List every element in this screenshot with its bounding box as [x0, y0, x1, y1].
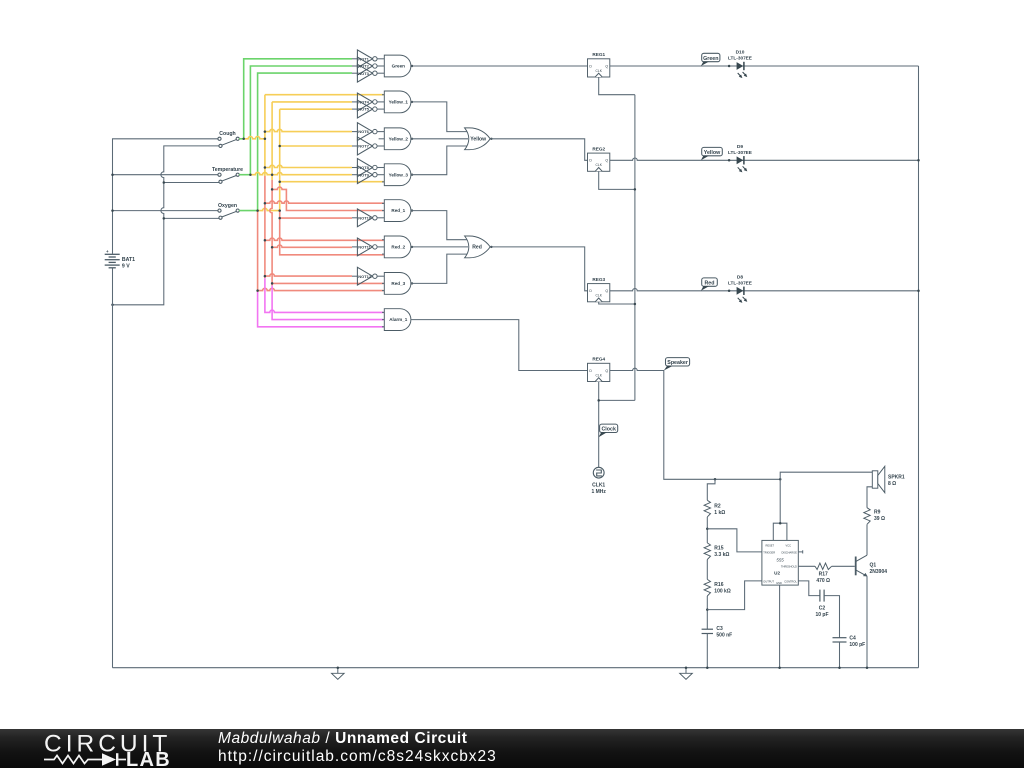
svg-text:LTL-307EE: LTL-307EE	[728, 150, 752, 155]
wire yellow Yellow_1 bottom NOT feed	[280, 108, 352, 110]
wire Oxygen bottom contact to return rail	[164, 217, 219, 219]
wire up-jog to speaker SPKR1	[780, 472, 872, 479]
wire red Red_1 top input (direct)	[265, 201, 384, 203]
flip-flop REG3	[588, 277, 610, 302]
wire red Red_3 top NOT feed	[265, 274, 352, 276]
svg-text:Red_3: Red_3	[391, 281, 405, 286]
wire REG3 Q to LED D8 and right rail	[610, 288, 919, 290]
wire magenta v1 + Alarm top input	[265, 278, 384, 312]
wire red v1 vertical	[264, 176, 266, 278]
AND gate Red_2	[384, 236, 413, 258]
inverter NOT6	[352, 123, 385, 141]
diode symbol in logo	[102, 753, 116, 766]
wire Red_1 output to OR	[411, 211, 468, 240]
flip-flop REG2	[588, 147, 610, 172]
resistor symbol in logo	[44, 756, 102, 764]
svg-text:NOT11: NOT11	[358, 245, 371, 250]
inverter NOT9	[352, 166, 385, 184]
wire magenta v2 + Alarm mid input	[272, 286, 384, 320]
svg-text:BAT1: BAT1	[122, 257, 135, 263]
svg-text:R15: R15	[714, 546, 723, 552]
capacitor C3 500 nF	[702, 626, 733, 639]
inverter NOT3	[352, 64, 385, 82]
svg-text:NOT12: NOT12	[358, 274, 372, 279]
node junction LED D9 anode	[728, 159, 731, 162]
net label flag Clock	[599, 424, 618, 437]
wire yellow Oxygen row to v3	[258, 208, 280, 210]
wire red Oxygen vertical at g3 x	[257, 211, 259, 292]
wire REG4 Q to Speaker net vertical then to 555 supply node	[610, 368, 780, 479]
net label flag Red	[701, 278, 717, 291]
wire OR Yellow output to REG2 D	[490, 139, 587, 161]
AND gate Red_1	[384, 200, 413, 222]
svg-text:CONTROL: CONTROL	[784, 579, 797, 583]
svg-text:8 Ω: 8 Ω	[888, 481, 896, 487]
inverter NOT8	[352, 159, 385, 177]
ground symbol right	[680, 668, 693, 680]
bus junctions on v2	[271, 173, 274, 284]
svg-text:OUTPUT: OUTPUT	[763, 579, 774, 583]
wire switch-return rail from Cough bottom contact down to battery-	[113, 146, 220, 305]
wire Yellow_3 output to OR	[411, 146, 468, 175]
svg-text:R9: R9	[874, 510, 881, 516]
wire REG3 CLK to trunk	[599, 302, 635, 304]
svg-text:Clock: Clock	[601, 427, 615, 433]
svg-text:R16: R16	[714, 582, 723, 588]
svg-text:THRESHOLD: THRESHOLD	[781, 565, 797, 569]
net label flag Yellow	[701, 147, 722, 160]
ground symbol left	[332, 668, 345, 680]
wire yellow Cough row to v1	[244, 137, 265, 139]
wire C2 to C4	[824, 596, 839, 638]
svg-text:DISCHARGE: DISCHARGE	[781, 550, 797, 554]
bus junctions on v1	[264, 130, 267, 277]
timer U2 555	[762, 540, 798, 585]
inverter NOT11	[352, 238, 385, 256]
wire yellow v2 vertical	[271, 102, 273, 180]
svg-text:CLK: CLK	[595, 69, 602, 73]
node junction trunk/REG2 clk	[634, 188, 637, 191]
node junction rail/Oxygen	[111, 209, 114, 212]
resistor R15 3.3 kohm	[704, 543, 729, 560]
svg-text:1 MHz: 1 MHz	[591, 489, 606, 495]
wire red v2 vertical (hops Oxygen row)	[270, 180, 272, 286]
wire trigger branch to 555 TRIGGER	[707, 529, 762, 552]
wire Temperature common to green bus (green)	[239, 174, 250, 176]
svg-text:NOT9: NOT9	[358, 172, 369, 177]
svg-text:Yellow: Yellow	[470, 137, 486, 143]
svg-text:C3: C3	[716, 626, 723, 632]
LED D8 LTL-307EE	[728, 275, 752, 303]
wire 555 GND to rail	[779, 585, 781, 668]
svg-text:555: 555	[776, 558, 784, 563]
wire Oxygen common to green bus (green)	[239, 210, 258, 212]
wire red Red_3 mid input (direct)	[272, 282, 384, 284]
wire Yellow_2 output to OR	[411, 138, 468, 140]
wire yellow v3 vertical	[279, 109, 281, 210]
svg-text:Yellow_3: Yellow_3	[389, 172, 409, 177]
svg-text:GND: GND	[776, 581, 782, 585]
wire Q1 emitter to rail	[866, 576, 868, 668]
inverter NOT7	[352, 137, 385, 155]
resistor R2 1 kohm	[704, 500, 725, 517]
svg-text:470 Ω: 470 Ω	[816, 578, 830, 584]
flip-flop REG4	[588, 357, 610, 382]
node junction R16-C3 / 555 output	[706, 608, 709, 611]
node junctions on bottom rail	[337, 666, 869, 669]
wire yellow Temperature row to v2 and Yellow_3 mid NOT feed	[250, 172, 352, 174]
OR gate Yellow	[465, 128, 493, 150]
wire yellow Yellow_3 top NOT feed	[265, 165, 352, 167]
switch SW2 (Temperature)	[212, 167, 243, 183]
node junction speaker rail / R2 branch	[714, 478, 717, 481]
svg-text:Temperature: Temperature	[212, 167, 243, 173]
wire red v3 vertical lower + Red_2 bottom input	[280, 211, 384, 255]
wire Green AND output to REG1 D	[411, 65, 588, 67]
node junction right rail row2	[917, 159, 920, 162]
svg-text:Speaker: Speaker	[667, 360, 688, 366]
svg-text:Red: Red	[704, 280, 714, 286]
wire yellow Yellow_1 mid NOT feed	[272, 101, 352, 103]
wire right rail up to LED row 1	[918, 66, 920, 668]
svg-text:CLK: CLK	[595, 163, 602, 167]
svg-text:REG3: REG3	[592, 277, 605, 282]
svg-text:REG2: REG2	[592, 147, 605, 152]
node junction return rail/Oxygen bottom	[163, 217, 166, 220]
svg-text:Yellow: Yellow	[704, 150, 721, 156]
svg-text:NOT10: NOT10	[358, 215, 372, 220]
wire yellow v1 vertical	[264, 95, 266, 176]
wire R17 to Q1 base	[832, 565, 855, 567]
switch SW1 (Cough)	[218, 131, 239, 147]
clock source CLK1 1 MHz	[591, 467, 606, 495]
wire Cough common to green bus (green)	[239, 138, 244, 140]
svg-text:Q: Q	[605, 369, 608, 373]
AND gate Yellow_1	[384, 91, 413, 113]
bus junction on oxygen vertical	[256, 289, 259, 292]
wire speaker bottom to R9	[867, 487, 872, 508]
svg-text:Cough: Cough	[219, 131, 235, 137]
wire REG4 clk row to trunk	[599, 399, 635, 401]
wire rail to Temperature switch top contact	[113, 174, 219, 176]
wire 555 THRESHOLD to R17	[798, 565, 815, 567]
svg-text:3.3 kΩ: 3.3 kΩ	[714, 552, 729, 558]
wire R15 bottom to R16 top	[706, 560, 708, 580]
LED D9 LTL-307EE	[728, 144, 752, 172]
battery BAT1 9 V	[105, 249, 135, 269]
wire Temperature bottom contact to return rail	[164, 182, 219, 184]
wire REG1 Q to LED D10 and right rail	[610, 65, 919, 67]
wire R2 top jog from speaker rail	[707, 479, 715, 500]
wire battery- down to bottom rail	[112, 268, 114, 668]
wire 555 OUTPUT loop to chain	[707, 581, 762, 610]
svg-text:10 pF: 10 pF	[815, 612, 828, 618]
AND gate Green	[384, 55, 413, 77]
svg-text:2N3904: 2N3904	[870, 569, 888, 575]
svg-text:Q1: Q1	[870, 562, 877, 568]
svg-text:C4: C4	[849, 636, 856, 642]
wire REG4 CLK down to clock source	[598, 382, 600, 468]
wire red Red_1 bottom NOT feed	[280, 217, 352, 219]
resistor R17 470 ohm	[815, 563, 832, 584]
resistor R16 100 kohm	[704, 579, 731, 596]
svg-text:CLK: CLK	[595, 373, 602, 377]
svg-text:REG1: REG1	[592, 52, 605, 57]
wire 555 CONTROL to C2	[798, 581, 820, 596]
svg-text:SPKR1: SPKR1	[888, 474, 905, 480]
wire R2 bottom to R15 top	[706, 517, 708, 543]
svg-text:VCC: VCC	[786, 544, 792, 548]
svg-text:Red: Red	[472, 245, 482, 251]
svg-text:Alarm_1: Alarm_1	[389, 317, 408, 322]
wire C3 bottom to rail	[706, 634, 708, 668]
wire red Red_3 bottom input (direct)	[258, 288, 384, 290]
svg-text:R17: R17	[819, 572, 828, 578]
wire gray stubs at direct AND inputs	[382, 95, 385, 327]
wire supply down to 555 RESET/VCC box	[779, 479, 781, 523]
svg-text:Oxygen: Oxygen	[218, 203, 237, 209]
node junction speaker rail / 555 supply	[779, 478, 782, 481]
inverter NOT4	[352, 93, 385, 111]
node junction R2/R15/trigger branch	[706, 528, 709, 531]
wire yellow Yellow_3 bottom input (direct)	[280, 181, 384, 183]
svg-text:100 kΩ: 100 kΩ	[714, 589, 731, 595]
svg-text:Q: Q	[605, 159, 608, 163]
svg-text:NOT5: NOT5	[358, 107, 369, 112]
svg-text:9 V: 9 V	[122, 264, 130, 270]
node junction LED D10 anode	[728, 65, 731, 68]
svg-text:CLK: CLK	[595, 294, 602, 298]
wire battery+ left rail up to Cough row then right to switch	[113, 139, 219, 254]
inverter NOT1	[352, 50, 385, 68]
wire Red_2 output to OR	[411, 246, 468, 248]
wire Alarm output to REG4 D	[411, 320, 588, 371]
flip-flop REG1	[588, 52, 610, 77]
node junction REG4 clk / clock source	[597, 399, 600, 402]
AND gate Alarm_1	[384, 309, 411, 331]
wire bottom ground rail	[113, 667, 919, 669]
wire red Red_2 mid NOT feed	[272, 245, 352, 247]
wire 555 DISCHARGE stub	[798, 550, 802, 553]
svg-text:C2: C2	[819, 606, 826, 612]
wire REG1 CLK to clock trunk	[599, 77, 635, 95]
node junction battery- / return rail	[111, 304, 114, 307]
svg-text:U2: U2	[774, 570, 780, 575]
svg-text:Red_2: Red_2	[391, 245, 405, 250]
wire REG2 Q to LED D9 and right rail	[610, 158, 919, 160]
svg-text:Green: Green	[392, 64, 405, 69]
AND gate Red_3	[384, 273, 413, 295]
LED D10 LTL-307EE	[728, 50, 752, 78]
svg-text:Yellow_1: Yellow_1	[389, 100, 409, 105]
svg-text:39 Ω: 39 Ω	[874, 516, 885, 522]
wire REG2 CLK to trunk	[599, 171, 635, 189]
OR gate Red	[465, 236, 493, 258]
resistor R9 39 ohm	[864, 508, 885, 525]
net label flag Green	[701, 53, 720, 66]
wire yellow Yellow_1 top input (direct)	[265, 94, 384, 96]
wire R16 bottom to C3 top	[706, 596, 708, 629]
wire unconnected stub Yellow_2 middle input	[379, 138, 385, 140]
node junction return rail/Temperature bottom	[163, 181, 166, 184]
svg-text:Yellow_2: Yellow_2	[389, 136, 409, 141]
bus junctions on green terminals	[242, 138, 258, 212]
wire clock trunk vertical	[634, 95, 636, 401]
wire red Red_2 top input (direct)	[265, 238, 384, 240]
svg-text:REG4: REG4	[592, 357, 605, 362]
net label flag Speaker	[664, 358, 690, 371]
svg-text:LAB: LAB	[126, 749, 171, 768]
svg-text:CLK1: CLK1	[592, 483, 605, 489]
inverter NOT10	[352, 209, 385, 227]
svg-text:RESET: RESET	[765, 544, 774, 548]
svg-text:100 pF: 100 pF	[849, 642, 865, 648]
svg-text:LTL-307EE: LTL-307EE	[728, 280, 752, 285]
wire Yellow_1 output to OR	[411, 102, 468, 132]
svg-text:NOT6: NOT6	[358, 129, 369, 134]
wire R9 to Q1 collector	[866, 524, 868, 555]
svg-text:NOT3: NOT3	[358, 71, 369, 76]
node junction rail/Temperature	[111, 173, 114, 176]
wire OR Red output to REG3 D	[490, 247, 587, 291]
inverter NOT2	[352, 57, 385, 75]
inverter NOT12	[352, 267, 385, 285]
switch SW3 (Oxygen)	[218, 203, 239, 219]
wire green g3 vertical + NOT row3 feed	[258, 73, 352, 211]
svg-text:LTL-307EE: LTL-307EE	[728, 56, 752, 61]
svg-text:Red_1: Red_1	[391, 208, 405, 213]
wire Red_3 output to OR	[411, 254, 468, 283]
svg-text:500 nF: 500 nF	[716, 633, 732, 639]
svg-text:NOT7: NOT7	[358, 144, 369, 149]
wire green g2 vertical + NOT row2 feed	[250, 66, 352, 175]
bus junctions on v3	[278, 145, 281, 220]
transistor Q1 2N3904	[856, 555, 888, 576]
speaker SPKR1 8 ohm	[872, 466, 905, 492]
inverter NOT5	[352, 100, 385, 118]
AND gate Yellow_2	[384, 128, 413, 150]
wire 555 RESET-VCC top link	[773, 523, 787, 540]
wire green g1 vertical + NOT row1 feed	[244, 59, 352, 139]
svg-text:R2: R2	[714, 504, 721, 510]
CircuitLab logo	[44, 730, 184, 768]
wire yellow Yellow_2 bottom NOT feed	[280, 145, 352, 147]
node junction 555 supply top	[779, 522, 782, 525]
node junction LED D8 anode	[728, 290, 731, 293]
svg-text:Q: Q	[605, 64, 608, 68]
svg-text:1 kΩ: 1 kΩ	[714, 510, 725, 516]
wire magenta Oxygen + Alarm bottom input	[258, 292, 384, 327]
capacitor C4 100 pF	[833, 636, 866, 649]
capacitor C2 10 pF	[815, 590, 828, 619]
wire C4 bottom to rail	[839, 642, 841, 668]
svg-text:TRIGGER: TRIGGER	[763, 550, 775, 554]
node junction trunk/REG3 clk	[634, 303, 637, 306]
AND gate Yellow_3	[384, 164, 413, 186]
node junction right rail row3	[917, 290, 920, 293]
wire yellow Yellow_2 top NOT feed	[265, 129, 352, 131]
wire rail to Oxygen switch top contact	[113, 210, 219, 212]
wire red jog row A v2 to Red_1 mid input	[272, 187, 384, 210]
svg-text:Green: Green	[703, 56, 718, 62]
svg-text:Q: Q	[605, 289, 608, 293]
